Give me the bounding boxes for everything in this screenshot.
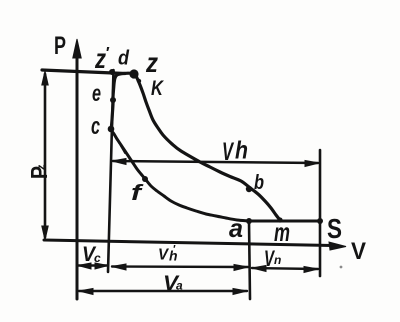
svg-text:c: c bbox=[94, 251, 101, 265]
V axis arrowhead bbox=[329, 242, 346, 250]
svg-text:c: c bbox=[91, 113, 100, 140]
V'h dimension line bbox=[112, 265, 248, 268]
Pz dimension arrow down bbox=[42, 226, 48, 240]
Vc dim arrow right bbox=[95, 263, 108, 269]
Vn dim arrow left bbox=[252, 266, 266, 272]
scan speck right bbox=[340, 266, 343, 269]
svg-text:z: z bbox=[36, 164, 48, 170]
V axis bbox=[44, 240, 332, 246]
P axis bbox=[76, 55, 79, 299]
svg-text:m: m bbox=[274, 217, 290, 247]
svg-text:P: P bbox=[54, 32, 66, 60]
Pz top level line bbox=[42, 70, 125, 74]
dashed line c to f bbox=[116, 137, 125, 153]
point c dot bbox=[108, 126, 115, 133]
small dot on expansion curve near K bbox=[137, 79, 141, 83]
point z' junction dot bbox=[109, 69, 115, 75]
S extension line bbox=[319, 150, 322, 276]
Vc dimension line bbox=[78, 264, 108, 266]
V'h dim arrow right bbox=[234, 265, 248, 271]
svg-text:z: z bbox=[145, 47, 158, 78]
Va dimension line bbox=[79, 290, 247, 292]
Vh dimension line bbox=[113, 161, 318, 163]
svg-text:n: n bbox=[274, 253, 281, 267]
Pz dimension arrow up bbox=[42, 71, 48, 85]
combustion rise and expansion curve c-z-b-m bbox=[111, 73, 280, 220]
point S junction dot bbox=[317, 218, 323, 224]
point a dot bbox=[246, 218, 252, 224]
point f dot bbox=[142, 176, 148, 182]
point m dot bbox=[277, 217, 282, 222]
V'h dim arrow left bbox=[112, 264, 126, 270]
Vn dimension line bbox=[252, 268, 318, 269]
Vh dim arrow right bbox=[305, 161, 319, 167]
svg-text:K: K bbox=[151, 77, 164, 100]
point b dot bbox=[246, 186, 252, 192]
Vc dim arrow left bbox=[78, 263, 91, 269]
svg-text:V: V bbox=[351, 238, 366, 265]
Vc extension line bbox=[108, 70, 114, 272]
point e dot bbox=[110, 97, 116, 103]
Va dim arrow right bbox=[233, 289, 247, 295]
svg-text:a: a bbox=[229, 213, 243, 243]
svg-text:d: d bbox=[118, 48, 130, 70]
P axis arrowhead bbox=[73, 39, 81, 58]
svg-text:h: h bbox=[235, 137, 248, 165]
point z dot bbox=[129, 69, 138, 78]
svg-text:V: V bbox=[158, 247, 169, 264]
compression curve c-f-a bbox=[111, 130, 249, 221]
Va dim arrow left bbox=[79, 289, 93, 295]
Pz dimension line bbox=[44, 74, 47, 237]
svg-text:e: e bbox=[92, 80, 101, 106]
svg-text:S: S bbox=[327, 213, 342, 244]
a extension line bbox=[249, 221, 250, 299]
exhaust line a-m-S bbox=[249, 220, 320, 223]
svg-text:a: a bbox=[176, 279, 183, 293]
svg-text:b: b bbox=[254, 172, 264, 194]
Vh dim arrow left bbox=[112, 159, 126, 165]
svg-text:V: V bbox=[222, 138, 235, 166]
Vn dim arrow right bbox=[304, 267, 318, 273]
